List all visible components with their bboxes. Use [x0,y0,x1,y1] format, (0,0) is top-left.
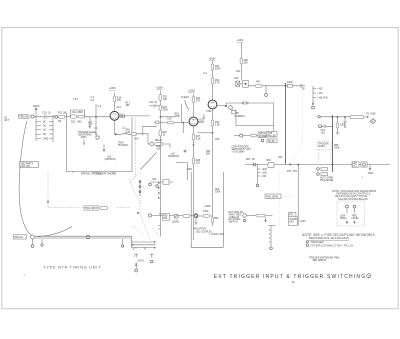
svg-text:R47: R47 [256,82,261,84]
svg-text:+225: +225 [262,169,268,171]
svg-text:.001: .001 [321,133,326,135]
svg-text:+100V: +100V [204,206,211,208]
svg-text:6DK6: 6DK6 [120,117,127,119]
svg-text:(TUNNEL): (TUNNEL) [234,116,245,118]
svg-text:TRIG MODE: TRIG MODE [320,180,334,182]
svg-text:V113: V113 [120,115,126,117]
svg-text:+100V: +100V [209,59,216,61]
svg-text:(APPROX): (APPROX) [105,158,116,161]
svg-text:-150V: -150V [80,137,87,139]
svg-text:47K: 47K [293,171,298,173]
svg-text:TRIG SENS: TRIG SENS [266,197,279,199]
svg-text:PICKOFF: PICKOFF [118,145,129,147]
svg-text:330K: 330K [163,110,169,112]
svg-text:FREQ: FREQ [340,218,347,220]
svg-text:TO: TO [366,114,369,116]
svg-text:R55 ATTEN: R55 ATTEN [194,228,207,231]
svg-text:R11 1M: R11 1M [58,113,66,115]
svg-text:R14: R14 [117,98,122,100]
svg-text:2: 2 [368,274,370,278]
svg-text:R21: R21 [163,97,168,99]
svg-text:+ MIL R-N: + MIL R-N [317,98,328,100]
svg-text:VALUES SHOWN BELOW: VALUES SHOWN BELOW [338,198,368,201]
svg-text:47K: 47K [117,100,122,102]
svg-text:100K: 100K [334,148,340,150]
svg-text:INTERCONNECTING PLUG: INTERCONNECTING PLUG [311,243,354,247]
svg-text:C41: C41 [236,71,241,73]
svg-text:C21 .01: C21 .01 [149,102,158,104]
svg-text:470K: 470K [175,116,181,118]
svg-text:.005: .005 [156,149,161,151]
svg-text:LEVEL: LEVEL [318,146,326,148]
svg-text:+ W2: + W2 [317,89,323,91]
svg-text:8.2K: 8.2K [196,139,201,141]
svg-text:R13: R13 [71,121,76,123]
svg-text:1K: 1K [163,135,166,137]
svg-text:+225V: +225V [188,91,195,93]
svg-text:-150V: -150V [186,169,193,171]
svg-text:EXT: EXT [353,166,358,168]
svg-text:TYPE NTA TIMING UNIT: TYPE NTA TIMING UNIT [43,266,101,270]
svg-text:5K: 5K [252,159,255,161]
svg-text:6DJ8: 6DJ8 [198,122,204,124]
svg-text:R71: R71 [289,215,294,217]
svg-text:LIST 163: LIST 163 [20,166,30,168]
svg-text:R100: R100 [287,82,293,84]
svg-text:R19: R19 [134,139,139,141]
svg-text:EXT TRIGGER INPUT & TRIGGER SW: EXT TRIGGER INPUT & TRIGGER SWITCHING [214,274,366,280]
svg-text:220K: 220K [215,69,221,71]
svg-text:68K: 68K [78,121,83,123]
svg-text:+225V: +225V [109,88,116,90]
svg-text:SW10: SW10 [33,106,40,108]
svg-text:R70: R70 [287,171,292,173]
svg-text:+ COUPL ADJ: + COUPL ADJ [209,233,224,236]
svg-text:TRIG INPUT: TRIG INPUT [85,208,99,210]
svg-text:TD 45: TD 45 [268,141,275,143]
svg-text:DELAY: DELAY [155,139,163,142]
svg-text:(APPROX): (APPROX) [168,155,179,158]
svg-text:PICKOFF SHOWN: PICKOFF SHOWN [97,174,117,176]
svg-text:ADJ: ADJ [289,221,293,224]
svg-text:R60: R60 [267,160,272,162]
svg-text:PULSE: PULSE [268,135,276,137]
svg-text:(OUT): (OUT) [138,261,145,263]
svg-text:EXT: EXT [5,120,10,122]
svg-text:DC: DC [43,134,47,136]
svg-text:+100V: +100V [156,88,163,90]
svg-text:4.7K: 4.7K [215,83,220,85]
svg-text:+100: +100 [262,173,268,175]
svg-text:R12 250K: R12 250K [73,112,84,114]
svg-text:DC: DC [43,126,47,128]
svg-text:25K: 25K [163,218,168,220]
svg-text:GND: GND [43,139,48,141]
svg-text:R52: R52 [214,218,219,220]
svg-text:TD: TD [236,113,239,115]
svg-text:AC: AC [43,121,47,124]
svg-text:SEP 1958 63: SEP 1958 63 [313,260,327,262]
svg-text:DIODE: DIODE [259,136,267,138]
svg-text:C45: C45 [152,179,157,181]
svg-text:-150: -150 [262,176,267,178]
svg-text:C33: C33 [215,139,220,141]
svg-text:+100V: +100V [237,40,244,42]
svg-text:V160: V160 [370,114,376,116]
svg-text:AC: AC [43,129,47,132]
svg-text:-150V: -150V [300,221,307,223]
svg-text:V152: V152 [206,111,212,113]
svg-text:+ W3: + W3 [317,93,323,95]
svg-text:C63: C63 [278,157,283,159]
svg-text:LEVEL: LEVEL [352,218,360,220]
svg-text:2.2K: 2.2K [126,132,131,134]
svg-text:SWITCH: SWITCH [229,222,239,224]
svg-text:56K: 56K [206,154,211,156]
svg-text:CLEAR: CLEAR [181,96,189,99]
svg-text:15K: 15K [244,63,249,65]
svg-text:C14: C14 [117,107,122,109]
svg-text:LEVEL: LEVEL [172,222,180,224]
svg-text:100K: 100K [215,192,221,194]
svg-text:+ CAL 50MV: + CAL 50MV [232,150,246,153]
svg-text:R50: R50 [163,215,168,217]
svg-text:1.8K: 1.8K [215,125,220,127]
svg-text:TRIG IN: TRIG IN [19,116,28,118]
svg-text:12K: 12K [196,163,201,165]
svg-text:C10 .01: C10 .01 [43,113,52,115]
svg-text:100K: 100K [203,211,209,213]
svg-text:V135: V135 [198,120,204,122]
svg-text:27K: 27K [196,101,201,103]
svg-text:1M: 1M [58,121,61,123]
svg-text:R61: R61 [246,159,251,161]
svg-text:10K: 10K [163,99,168,101]
svg-text:1.5-7: 1.5-7 [73,99,79,101]
svg-text:C40: C40 [234,78,239,80]
svg-text:-150V: -150V [367,173,374,175]
svg-text:TRIG IN: TRIG IN [14,237,23,239]
